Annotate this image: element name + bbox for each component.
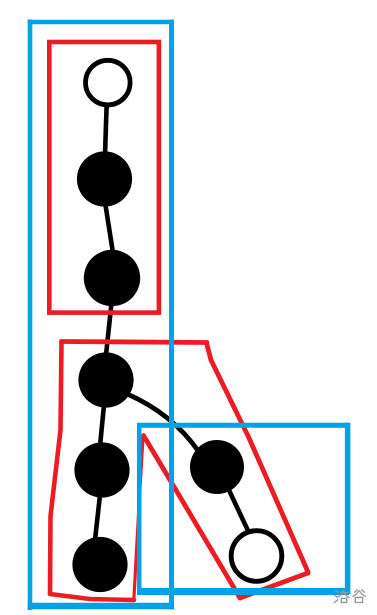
blue subtree rectangle 1: bottom edge bbox=[28, 603, 174, 610]
node 3 bbox=[84, 250, 140, 306]
blue subtree rectangle 2: top edge bbox=[137, 423, 350, 428]
red chain outline lambda: left edge bbox=[50, 342, 62, 595]
watermark luogu 洛 bbox=[334, 589, 350, 603]
node 1 (white root) bbox=[86, 60, 131, 105]
node 4 bbox=[78, 352, 133, 407]
node 5 bbox=[74, 442, 129, 497]
red chain box top (nodes 1-2-3) bbox=[49, 42, 159, 313]
red chain outline lambda: bottom right edge bbox=[240, 573, 308, 598]
watermark luogu 谷 bbox=[352, 589, 366, 602]
wire edge 7-8 bbox=[228, 488, 250, 535]
blue subtree rectangle 1 (whole tree): left edge bbox=[28, 20, 33, 611]
red chain outline lambda: bottom left edge bbox=[50, 594, 134, 600]
wire edge 3-4 bbox=[106, 303, 112, 355]
red chain outline lambda: inner diagonal (left side of chain 7-8) bbox=[144, 436, 241, 599]
blue subtree rectangle 2: bottom edge bbox=[137, 588, 349, 595]
node 2 bbox=[77, 151, 132, 206]
blue subtree rectangle 2: right edge bbox=[345, 423, 351, 594]
node 7 bbox=[190, 440, 244, 494]
blue subtree rectangle 1: top edge bbox=[28, 20, 174, 25]
red chain outline lambda: outer diagonal (right side of chain 7-8) bbox=[207, 343, 309, 572]
node 6 bbox=[72, 537, 127, 592]
red chain outline lambda: top edge bbox=[62, 342, 208, 343]
wire edge 5-6 bbox=[95, 495, 100, 540]
wire edge 4-7 bbox=[125, 393, 199, 452]
node 8 (white leaf) bbox=[231, 531, 282, 582]
wire edge 1-2 bbox=[105, 100, 107, 155]
red chain outline lambda: thin inner right edge bbox=[134, 437, 143, 601]
blue subtree rectangle 1: right edge bbox=[169, 20, 174, 610]
wire edge 4-5 bbox=[100, 405, 104, 446]
wire edge 2-3 bbox=[105, 202, 113, 253]
blue subtree rectangle 2 (subtree of 7): left edge bbox=[137, 423, 142, 594]
